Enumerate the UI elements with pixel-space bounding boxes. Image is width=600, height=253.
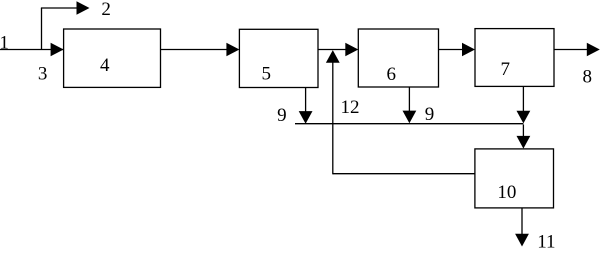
- svg-text:2: 2: [101, 0, 111, 20]
- wire 6 to 7: [439, 49, 467, 51]
- wire 12 horizontal: [333, 173, 475, 175]
- wire 5 to 6: [318, 49, 349, 51]
- svg-text:9: 9: [425, 104, 435, 125]
- svg-text:9: 9: [277, 105, 287, 126]
- arrowhead output 11: [515, 234, 529, 247]
- arrowhead output 2: [77, 1, 90, 14]
- block 7: [475, 29, 554, 87]
- arrowhead into block 7: [462, 43, 475, 56]
- arrowhead output 8: [587, 43, 600, 56]
- arrowhead 9 left: [299, 111, 313, 124]
- arrowhead into block 4: [51, 43, 64, 56]
- wire branch 2 horizontal: [41, 7, 78, 9]
- block 10: [475, 149, 554, 208]
- wire 5 down 9: [305, 88, 307, 113]
- wire 6 down 9: [408, 87, 410, 112]
- svg-text:3: 3: [38, 64, 48, 85]
- svg-text:7: 7: [500, 59, 510, 80]
- arrowhead 9 right: [403, 111, 417, 124]
- svg-text:12: 12: [341, 97, 360, 118]
- wire 4 to 5: [161, 49, 231, 51]
- wire input 1 main line: [0, 49, 64, 51]
- arrowhead 12 up into main line: [326, 50, 340, 63]
- wire 7 down upper: [522, 86, 524, 111]
- svg-text:1: 1: [0, 32, 9, 53]
- block 6: [358, 29, 438, 87]
- wire branch 2 vertical: [41, 8, 43, 50]
- svg-text:5: 5: [261, 64, 271, 85]
- arrowhead into block 6: [345, 43, 358, 56]
- wire 12 vertical: [332, 60, 334, 174]
- svg-text:11: 11: [537, 232, 555, 253]
- arrowhead 7 down onto collector: [517, 111, 531, 124]
- arrowhead into block 5: [226, 43, 239, 56]
- block 5: [239, 29, 318, 87]
- wire collector line: [295, 123, 523, 125]
- wire output 8: [554, 49, 590, 51]
- svg-text:6: 6: [387, 64, 397, 85]
- wire 10 down 11: [521, 208, 523, 235]
- arrowhead into block 10 top: [517, 136, 531, 149]
- svg-text:4: 4: [100, 55, 110, 76]
- block 4: [64, 29, 161, 87]
- svg-text:8: 8: [582, 67, 592, 88]
- svg-text:10: 10: [497, 182, 516, 203]
- wire 7 down lower: [522, 125, 524, 137]
